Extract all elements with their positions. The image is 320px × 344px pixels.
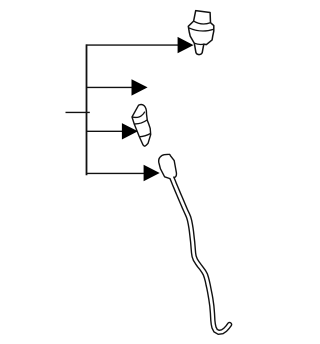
part: hood latch rod (knob + rod + hook), single silhouette [159, 154, 232, 334]
arrow 1 (to vapor valve) [178, 37, 194, 53]
part: vapor valve flange seam [189, 28, 214, 31]
wire: leader line 4 (bottom) [86, 172, 145, 174]
part: grommet seam lower [139, 134, 150, 137]
wire: leader line 3 [86, 130, 123, 132]
arrow 4 (to rod) [144, 165, 160, 181]
part: vapor valve tip seam [194, 43, 204, 44]
part: vapor valve cap seam [194, 21, 211, 24]
wire: bracket vertical line [86, 44, 88, 175]
part: grommet body [132, 105, 151, 147]
wire: leader stub left [66, 111, 90, 113]
wire: leader line 1 (top) [86, 44, 179, 46]
arrow 2 [132, 79, 148, 95]
part: grommet inner rim chord [132, 112, 145, 118]
part: vapor valve body outline [188, 11, 214, 55]
part: grommet seam upper [134, 120, 147, 124]
wire: leader line 2 [86, 86, 133, 88]
arrow 3 (to grommet) [122, 123, 138, 139]
